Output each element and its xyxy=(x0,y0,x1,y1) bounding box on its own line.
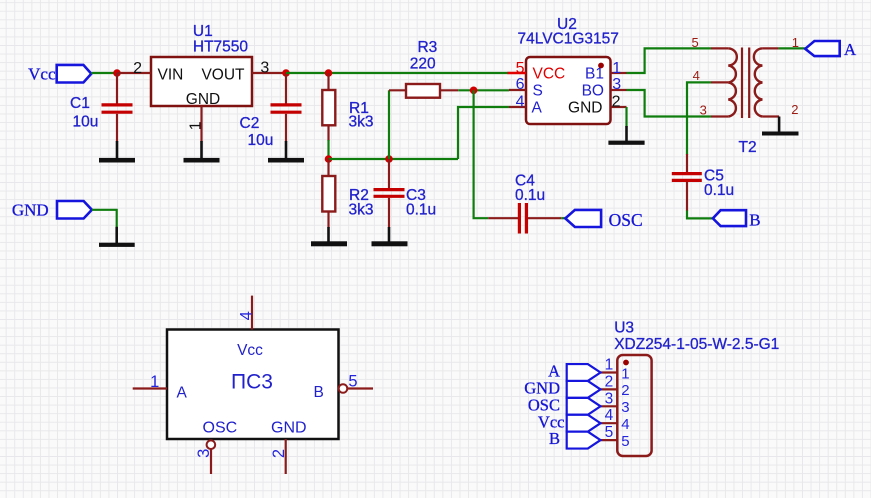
pin 5 of T2 xyxy=(691,35,728,50)
capacitor C3 xyxy=(374,159,437,228)
wire R1 to lower rail xyxy=(327,140,329,159)
svg-text:R3: R3 xyxy=(417,39,437,56)
port Vcc xyxy=(28,64,91,83)
wire OSC branch vertical xyxy=(474,90,489,218)
svg-text:B: B xyxy=(314,384,324,401)
svg-text:A: A xyxy=(177,385,188,402)
ground (C1) xyxy=(99,141,135,163)
svg-text:3: 3 xyxy=(260,60,269,77)
svg-text:0.1u: 0.1u xyxy=(704,182,734,199)
pin 4 of U2 (A) xyxy=(509,93,526,110)
pin 4 of T2 xyxy=(693,68,729,83)
ground (C2) xyxy=(268,141,304,163)
svg-text:5: 5 xyxy=(605,424,614,441)
IC U1 HT7550 xyxy=(151,23,252,108)
svg-text:C1: C1 xyxy=(70,95,90,112)
svg-text:OSC: OSC xyxy=(203,419,238,436)
transformer T2 xyxy=(728,48,762,157)
svg-text:0.1u: 0.1u xyxy=(406,202,436,219)
node junction R1/R2/rail xyxy=(325,155,333,163)
pin 2 of U3 xyxy=(600,373,617,390)
svg-text:A: A xyxy=(532,100,543,117)
svg-text:BO: BO xyxy=(582,83,604,100)
node junction rail/R1 xyxy=(325,69,333,77)
svg-text:2: 2 xyxy=(612,93,621,110)
connector U3 XDZ254 xyxy=(614,319,779,456)
svg-text:0.1u: 0.1u xyxy=(515,187,545,204)
svg-text:10u: 10u xyxy=(248,132,274,149)
wire lower rail xyxy=(329,158,459,160)
ground (U1 pin1) xyxy=(184,141,220,163)
svg-text:1: 1 xyxy=(150,373,159,391)
svg-text:GND: GND xyxy=(186,91,220,108)
pin 5 of U2 (VCC) xyxy=(508,60,527,77)
block ПС3 xyxy=(167,330,339,440)
pin 2 of U2 (GND) xyxy=(611,93,627,110)
wire C5 to port B xyxy=(687,211,713,219)
svg-text:1: 1 xyxy=(612,60,621,77)
svg-text:6: 6 xyxy=(516,76,525,93)
svg-text:VCC: VCC xyxy=(533,66,566,83)
svg-text:U1: U1 xyxy=(193,23,213,40)
pin 4 of ПС3 (Vcc top) xyxy=(237,296,255,330)
svg-text:3k3: 3k3 xyxy=(349,202,374,219)
wire xyxy=(91,72,117,74)
svg-text:3: 3 xyxy=(605,390,614,407)
svg-text:2: 2 xyxy=(133,60,142,77)
capacitor C4 xyxy=(488,173,561,234)
node junction VOUT/C2 xyxy=(282,69,290,77)
svg-text:3: 3 xyxy=(612,76,621,93)
svg-text:VIN: VIN xyxy=(158,67,184,84)
wire A-select branch xyxy=(458,107,509,159)
wire GND port xyxy=(92,210,117,228)
net flag A (U3 pin1) xyxy=(548,362,600,381)
svg-text:3: 3 xyxy=(700,103,707,118)
port A xyxy=(805,40,857,59)
port OSC xyxy=(565,210,642,230)
svg-text:5: 5 xyxy=(516,60,525,77)
node dot inside U3 (pin1 mark) xyxy=(623,360,629,366)
svg-text:2: 2 xyxy=(791,102,798,117)
net flag Vcc (U3 pin4) xyxy=(538,412,601,431)
svg-text:5: 5 xyxy=(348,373,357,391)
svg-text:220: 220 xyxy=(410,56,436,73)
wire U2 pin2 to ground xyxy=(625,107,627,127)
node dot inside U2 (pin1 mark) xyxy=(598,63,604,69)
svg-text:U3: U3 xyxy=(614,319,634,336)
wire T2 pin4 branch to C5/B xyxy=(687,82,711,155)
pin 1 of U3 xyxy=(600,357,617,374)
wire R3 branch vertical xyxy=(388,90,390,159)
svg-text:T2: T2 xyxy=(739,139,757,156)
svg-text:B: B xyxy=(549,429,560,448)
net flag GND (U3 pin2) xyxy=(524,379,600,398)
pin 6 of U2 (S) xyxy=(509,76,526,93)
node junction C3/R3 branch xyxy=(385,155,393,163)
svg-text:2: 2 xyxy=(605,373,614,390)
svg-text:4: 4 xyxy=(621,416,629,433)
svg-text:HT7550: HT7550 xyxy=(193,39,249,56)
svg-text:XDZ254-1-05-W-2.5-G1: XDZ254-1-05-W-2.5-G1 xyxy=(614,336,779,353)
pin 3 of T2 xyxy=(700,103,729,118)
svg-text:1: 1 xyxy=(621,365,629,382)
pin 3 of ПС3 (OSC bottom, inverted) xyxy=(195,440,215,474)
svg-text:2: 2 xyxy=(621,382,629,399)
wire U2 pin1 to T2 pin5 xyxy=(627,48,712,73)
svg-text:1: 1 xyxy=(187,121,204,130)
IC U2 74LVC1G3157 xyxy=(518,16,619,124)
pin 3 of U1 (VOUT) xyxy=(252,60,286,77)
svg-text:S: S xyxy=(533,83,543,100)
svg-text:C2: C2 xyxy=(240,115,260,132)
svg-text:4: 4 xyxy=(516,93,525,110)
svg-text:4: 4 xyxy=(605,407,614,424)
svg-text:Vcc: Vcc xyxy=(237,342,263,359)
svg-text:10u: 10u xyxy=(73,114,99,131)
ground (C3) xyxy=(372,227,408,246)
svg-text:OSC: OSC xyxy=(609,210,643,230)
wire U2 pin3 to T2 pin3 xyxy=(627,90,712,117)
resistor R2 3k3 xyxy=(322,159,373,228)
pin 4 of U3 xyxy=(600,407,617,424)
pin 3 of U3 xyxy=(600,390,617,407)
ground (T2 pin2) xyxy=(762,117,799,136)
svg-text:GND: GND xyxy=(271,419,307,436)
svg-text:74LVC1G3157: 74LVC1G3157 xyxy=(518,31,619,48)
svg-text:2: 2 xyxy=(270,449,288,458)
svg-text:5: 5 xyxy=(621,433,629,450)
svg-text:B: B xyxy=(749,211,760,230)
capacitor C1 xyxy=(70,73,133,142)
wire R3 to U2 pin6 xyxy=(458,89,509,91)
pin 5 of ПС3 (B right, inverted) xyxy=(339,373,373,393)
svg-text:Vcc: Vcc xyxy=(28,64,56,83)
svg-text:1: 1 xyxy=(605,357,614,374)
wire T2 pin1 to port A xyxy=(779,47,806,49)
net flag OSC (U3 pin3) xyxy=(528,395,601,414)
svg-text:3: 3 xyxy=(621,399,629,416)
capacitor C5 xyxy=(672,154,734,211)
resistor R1 3k3 xyxy=(322,73,373,141)
node junction Vcc/C1/VIN xyxy=(113,69,121,77)
wire Vcc rail to U2 xyxy=(286,72,508,74)
wire C4 to OSC port xyxy=(561,217,565,219)
svg-text:3k3: 3k3 xyxy=(349,114,374,131)
svg-text:A: A xyxy=(844,40,857,59)
net flag B (U3 pin5) xyxy=(549,429,601,448)
pin 1 of U2 (B1) xyxy=(611,60,627,77)
ground (U2 pin2) xyxy=(608,126,644,145)
svg-text:4: 4 xyxy=(237,311,255,320)
ground (GND port) xyxy=(99,227,135,247)
ground (R2) xyxy=(311,227,347,246)
pin 1 of ПС3 (A left) xyxy=(133,373,167,391)
svg-text:5: 5 xyxy=(691,35,698,50)
svg-text:4: 4 xyxy=(693,68,700,83)
pin 1 of U1 (GND) xyxy=(187,106,204,142)
pin 2 of ПС3 (GND bottom) xyxy=(270,439,288,474)
svg-text:GND: GND xyxy=(568,100,602,117)
port B xyxy=(713,210,761,229)
pin 2 of T2 xyxy=(762,102,798,117)
port GND xyxy=(12,201,92,220)
resistor R3 220 xyxy=(389,39,458,98)
pin 5 of U3 xyxy=(600,424,617,441)
svg-text:3: 3 xyxy=(195,449,213,458)
pin 2 of U1 (VIN) xyxy=(117,60,151,77)
pin 3 of U2 (BO) xyxy=(611,76,627,93)
node junction R3/OSC branch xyxy=(470,87,478,95)
capacitor C2 xyxy=(240,73,302,149)
svg-text:ПС3: ПС3 xyxy=(231,371,273,394)
svg-text:GND: GND xyxy=(12,201,49,220)
svg-text:VOUT: VOUT xyxy=(201,67,245,84)
pin 1 of T2 xyxy=(762,35,799,50)
